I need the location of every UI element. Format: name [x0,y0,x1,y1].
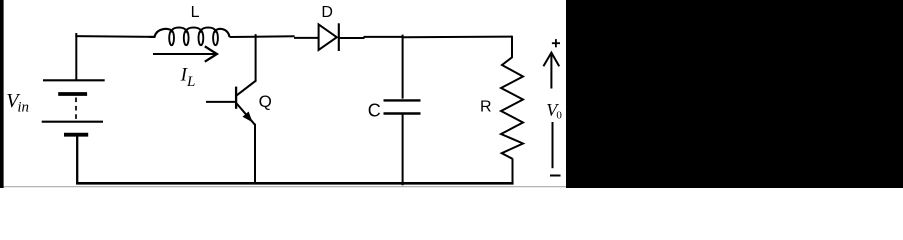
wire node B segment [364,36,404,38]
battery Vin top lead [75,33,77,80]
svg-text:L: L [186,74,195,90]
svg-text:0: 0 [556,109,562,121]
battery Vin bottom lead [76,136,78,184]
output minus sign [550,175,561,177]
transistor Q base lead [206,101,236,103]
output plus sign [552,42,560,44]
battery Vin short plate 2 [64,133,88,137]
wire diode to node B [339,37,365,39]
inductor L coil [150,28,230,37]
svg-text:D: D [321,4,333,21]
IL current arrow [153,53,216,55]
battery Vin dashed cell link [75,98,77,121]
transistor Q emitter arrowhead [243,112,251,121]
left black border bar [0,0,4,188]
bottom wire [76,182,513,185]
svg-text:R: R [480,99,492,116]
IL arrowhead [205,46,217,61]
output lower line [552,122,554,168]
svg-text:C: C [368,100,381,120]
battery Vin long plate 1 [43,79,105,81]
page-edge faint line [0,186,566,188]
svg-text:L: L [191,4,200,21]
diode D triangle [319,24,337,50]
capacitor C top plate [384,99,421,101]
capacitor C bottom lead [402,114,404,185]
svg-text:in: in [17,99,29,115]
wire node A to diode anode [294,37,319,39]
resistor R zigzag [501,57,523,159]
wire node B to resistor corner [403,36,512,39]
output V0 arrowhead [543,53,559,67]
transistor Q collector diagonal [236,80,257,96]
battery Vin long plate 2 [42,121,103,123]
inductor L loops [169,31,174,45]
svg-text:Q: Q [259,92,272,111]
transistor Q emitter lead down [254,124,256,184]
capacitor C top lead [402,35,404,99]
diode D cathode bar [338,23,340,51]
battery Vin short plate 1 [58,92,87,96]
transistor Q emitter diagonal [236,103,255,125]
transistor Q collector lead [255,34,257,81]
wire inductor to node A [230,35,295,38]
right black region [566,0,903,188]
wire battery to inductor [75,35,154,38]
output V0 arrow line [550,55,552,89]
resistor R bottom lead [512,159,514,185]
resistor R top lead [511,36,513,58]
capacitor C bottom plate [384,112,421,115]
transistor Q base bar [235,87,237,109]
